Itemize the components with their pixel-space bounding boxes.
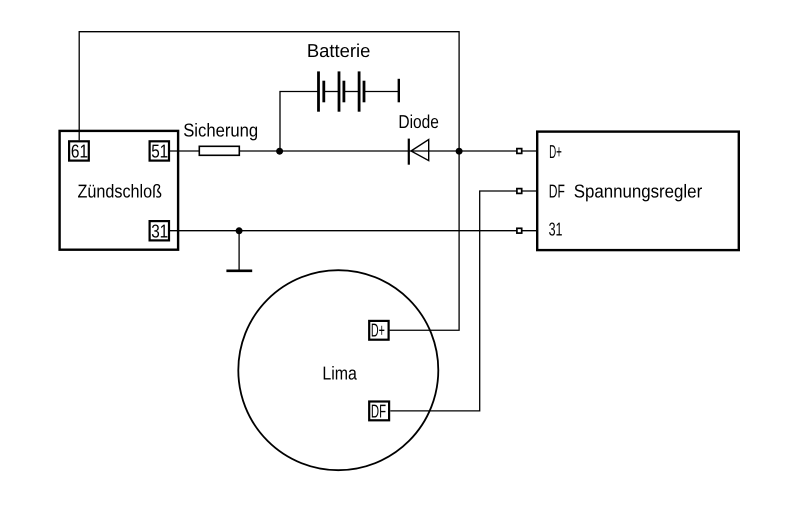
wire battery end segment [364, 91, 399, 93]
svg-text:Spannungsregler: Spannungsregler [574, 180, 703, 201]
terminal box Lima D+ [369, 321, 388, 340]
fuse Sicherung [199, 146, 239, 155]
svg-text:51: 51 [151, 141, 168, 162]
wire battery inter-cell segment 2 [344, 91, 359, 93]
terminal box 51 [150, 141, 169, 160]
svg-text:Diode: Diode [398, 111, 439, 132]
diode cathode bar [408, 139, 410, 165]
wire from node A down to Lima D+ terminal [390, 151, 460, 330]
wire battery inter-cell segment 1 [324, 91, 339, 93]
svg-text:DF: DF [371, 400, 386, 421]
svg-text:DF: DF [549, 181, 565, 202]
wire from terminal 61 up and across to node A [79, 32, 459, 151]
junction node battery tap [276, 148, 283, 155]
terminal box 31 (ignition switch) [150, 221, 169, 240]
terminal box 61 [69, 141, 89, 160]
diode triangle [411, 140, 429, 161]
svg-text:D+: D+ [371, 319, 385, 340]
box Zündschloß (ignition switch) [60, 131, 179, 250]
junction node ground tap [236, 227, 243, 234]
svg-text:31: 31 [549, 219, 563, 240]
svg-text:D+: D+ [549, 141, 562, 162]
terminal pin square regulator D+ [517, 149, 522, 154]
ground [226, 269, 252, 272]
alternator circle Lima [238, 270, 438, 470]
wire ground drop [238, 231, 240, 270]
wire main B+ row from terminal 51 to regulator D+ [170, 150, 537, 152]
wire battery branch [280, 92, 319, 152]
terminal pin square regulator DF [517, 189, 522, 194]
svg-text:Lima: Lima [322, 363, 357, 384]
terminal box Lima DF [369, 402, 389, 421]
svg-text:31: 31 [151, 220, 168, 241]
svg-text:61: 61 [71, 141, 88, 162]
junction node A at diode output [456, 148, 463, 155]
svg-text:Batterie: Batterie [307, 40, 371, 61]
terminal pin square regulator 31 [517, 228, 522, 233]
battery Batterie plates [319, 71, 399, 111]
svg-text:Zündschloß: Zündschloß [78, 180, 163, 201]
wire 31 row from terminal 31 to regulator 31 [170, 230, 537, 232]
wire DF from Lima to regulator [390, 191, 537, 411]
svg-text:Sicherung: Sicherung [183, 120, 258, 141]
box Spannungsregler (voltage regulator) [537, 132, 739, 251]
